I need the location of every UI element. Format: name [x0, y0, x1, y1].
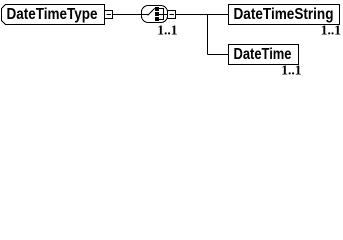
element DateTime box	[229, 45, 299, 65]
svg-text:1..1: 1..1	[321, 23, 342, 38]
wire from DateTimeType to choice compositor	[113, 14, 142, 16]
wire from compositor to branch junction	[176, 14, 229, 16]
branch vertical wire	[207, 15, 209, 55]
svg-text:1..1: 1..1	[281, 63, 302, 78]
wire to DateTime	[208, 54, 229, 56]
choice compositor icon	[142, 6, 168, 23]
svg-text:DateTime: DateTime	[234, 46, 292, 63]
svg-text:DateTimeType: DateTimeType	[7, 6, 98, 23]
expand/collapse minus box on compositor	[168, 11, 176, 19]
element DateTimeString box	[229, 5, 340, 25]
svg-text:1..1: 1..1	[157, 23, 178, 38]
svg-text:DateTimeString: DateTimeString	[234, 6, 334, 23]
complexType DateTimeType box	[2, 5, 105, 25]
expand/collapse minus box on DateTimeType	[105, 11, 113, 19]
